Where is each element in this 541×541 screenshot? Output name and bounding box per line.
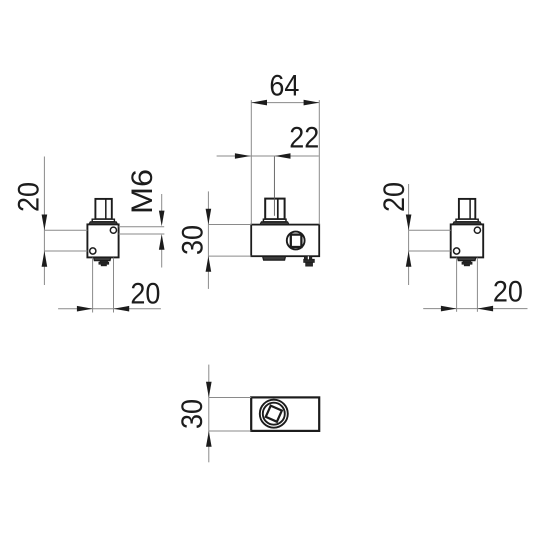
- right view grease nipple: [462, 261, 472, 266]
- left view flange step 1: [92, 219, 114, 222]
- front view grease nipple: [304, 256, 315, 266]
- front view bottom boss: [263, 256, 286, 260]
- right view bottom boss: [458, 258, 476, 261]
- dimension 20 vertical right: [378, 182, 451, 285]
- dimension 64: [251, 69, 319, 224]
- right view flange step 2: [453, 222, 482, 225]
- svg-text:M6: M6: [125, 169, 159, 214]
- right view stem: [459, 199, 475, 219]
- dimension 20 vertical left: [12, 157, 87, 286]
- bottom view socket circles: [260, 400, 288, 428]
- front view flange step 1: [263, 219, 286, 222]
- svg-text:20: 20: [493, 275, 523, 309]
- right view lower hole: [454, 248, 460, 254]
- left view grease nipple: [99, 261, 109, 266]
- left view upper hole: [110, 227, 116, 233]
- bottom view square drive: [266, 406, 282, 422]
- svg-text:20: 20: [12, 182, 46, 212]
- svg-text:64: 64: [269, 69, 299, 103]
- front view square drive socket: [287, 232, 305, 250]
- right view upper hole: [474, 227, 480, 233]
- left view body: [87, 224, 118, 257]
- dimension M6: [119, 169, 165, 268]
- front view stem centerline: [273, 156, 275, 216]
- left view stem: [95, 199, 111, 219]
- left view lower hole: [90, 248, 96, 254]
- svg-text:20: 20: [130, 277, 160, 311]
- right view flange step 1: [456, 219, 478, 222]
- left view bottom boss: [94, 258, 111, 261]
- dimension 20 horizontal left: [58, 258, 161, 313]
- left view flange step 2: [89, 222, 118, 225]
- svg-text:22: 22: [289, 121, 319, 155]
- bottom view outline: [251, 397, 319, 431]
- dimension 30 front: [176, 191, 251, 289]
- dimension 30 bottom: [176, 365, 251, 463]
- dimension 22: [217, 121, 320, 159]
- svg-text:30: 30: [176, 225, 210, 255]
- dimension 20 horizontal right: [423, 258, 527, 312]
- svg-text:20: 20: [378, 182, 412, 212]
- svg-text:30: 30: [176, 399, 210, 429]
- front view body: [251, 225, 319, 257]
- right view body: [451, 224, 484, 257]
- front view flange step 2: [260, 222, 289, 225]
- front view stem: [265, 199, 284, 220]
